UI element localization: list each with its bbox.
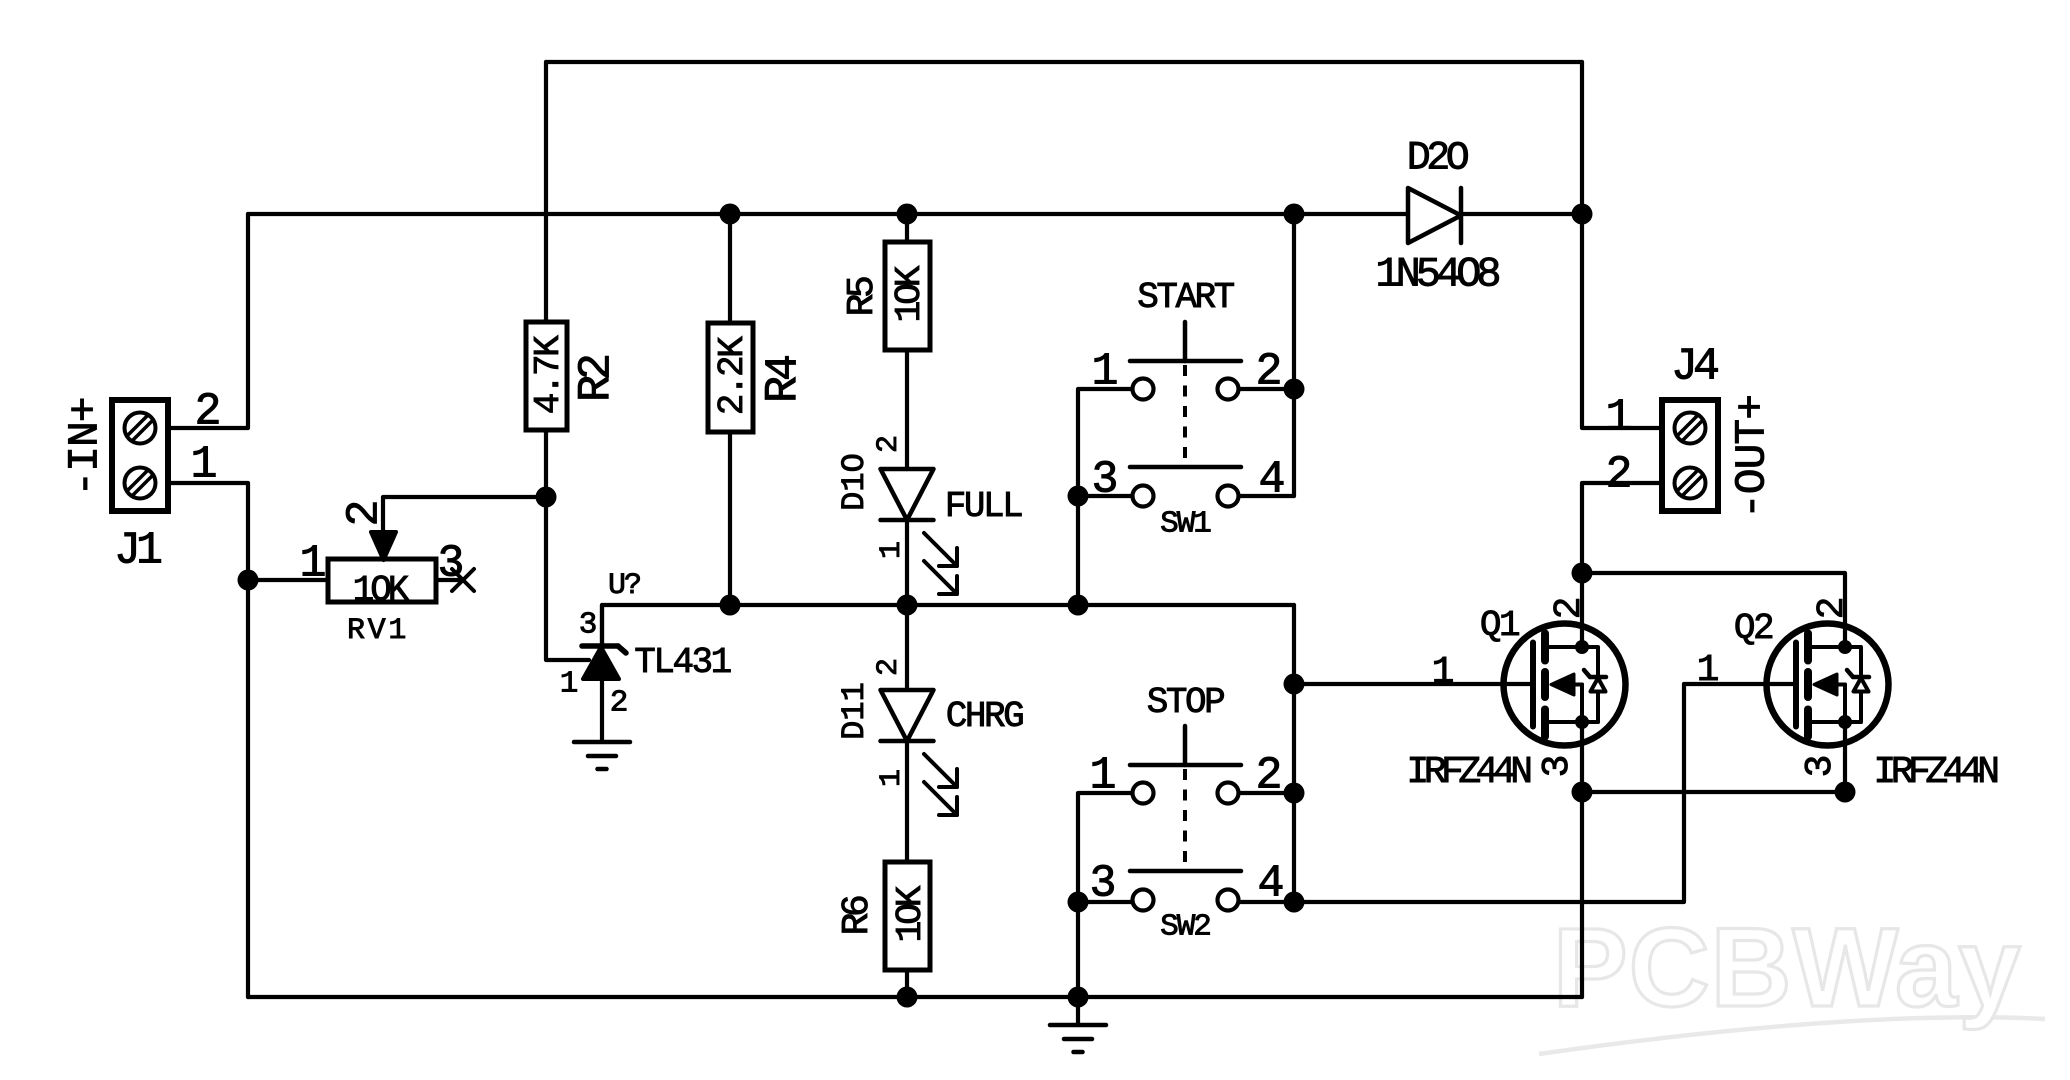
label R4	[758, 356, 809, 403]
label D10	[836, 453, 873, 511]
svg-text:D2O: D2O	[1407, 137, 1468, 182]
svg-text:1: 1	[190, 439, 217, 490]
label Q1	[1480, 605, 1519, 646]
svg-text:CHRG: CHRG	[946, 696, 1023, 737]
wire RV1 pin1	[248, 578, 328, 582]
svg-text:Q1: Q1	[1480, 605, 1519, 646]
label FULL	[945, 486, 1022, 527]
pin 2 label Q1	[1548, 597, 1591, 620]
pin 1 label D11	[875, 769, 909, 787]
pin 3 label SW1	[1091, 454, 1118, 505]
net label -OUT+	[1728, 395, 1777, 519]
svg-text:4.7K: 4.7K	[528, 335, 569, 414]
value 10K R5	[889, 265, 930, 322]
transistor Q1 IRFZ44N	[1504, 624, 1626, 746]
wire D11 cathode to R6	[905, 739, 909, 862]
connector J4 screw pin1	[1675, 413, 1706, 444]
label STOP	[1147, 682, 1224, 723]
svg-text:1: 1	[1091, 346, 1118, 397]
svg-text:R6: R6	[836, 896, 879, 935]
node mid net / Q1 gate branch	[1284, 674, 1305, 695]
node R4 top	[720, 204, 741, 225]
svg-text:RV1: RV1	[347, 614, 409, 648]
node R5 top	[897, 204, 918, 225]
svg-text:3: 3	[579, 608, 598, 643]
svg-text:2.2K: 2.2K	[712, 336, 753, 415]
pin 3 label SW2	[1089, 858, 1116, 909]
wire D10 cathode to mid net	[905, 518, 909, 605]
value 1N5408	[1375, 250, 1499, 298]
svg-text:2: 2	[1811, 597, 1854, 620]
node Q1 source	[1572, 782, 1593, 803]
svg-text:2: 2	[610, 686, 629, 721]
pin 1 label J4	[1605, 392, 1632, 443]
pin 1 label SW1	[1091, 346, 1118, 397]
connector J1 body	[112, 400, 168, 511]
resistor R6 body	[885, 862, 930, 970]
svg-text:PCBWay: PCBWay	[1553, 905, 2022, 1030]
wire Q1 source down	[1580, 722, 1584, 997]
wire SW1 pin2 branch	[1237, 387, 1294, 391]
pin 2 label D10	[872, 435, 906, 453]
svg-text:R2: R2	[571, 356, 622, 402]
pin 2 label RV1	[339, 499, 390, 526]
svg-text:3: 3	[1799, 755, 1842, 778]
svg-text:1: 1	[299, 538, 326, 589]
pin 1 label J1	[190, 439, 217, 490]
svg-text:3: 3	[437, 538, 464, 589]
node J4-pin2/Q drains	[1572, 563, 1593, 584]
node R6 bottom rail	[897, 987, 918, 1008]
svg-text:2: 2	[339, 499, 390, 526]
svg-text:R5: R5	[841, 277, 884, 316]
svg-text:TL431: TL431	[634, 642, 730, 683]
node RV1-pin1/IN- net	[238, 570, 259, 591]
svg-text:2: 2	[1255, 346, 1282, 397]
svg-text:J1: J1	[114, 525, 161, 576]
svg-text:1: 1	[1432, 651, 1455, 694]
node SW2 pin2	[1284, 783, 1305, 804]
wire R2 bottom to TL431 ref	[546, 430, 589, 660]
svg-text:1: 1	[1605, 392, 1632, 443]
svg-text:IRFZ44N: IRFZ44N	[1406, 751, 1530, 794]
resistor R5 body	[885, 242, 930, 350]
svg-text:1OK: 1OK	[890, 885, 931, 942]
pin 2 label D11	[872, 658, 906, 676]
wire Q2 source	[1843, 722, 1847, 792]
svg-text:D11: D11	[836, 682, 873, 740]
no-connect X RV1 pin3	[452, 569, 474, 591]
pin 1 label D10	[875, 541, 909, 559]
label CHRG	[946, 696, 1023, 737]
node SW1 pin3	[1068, 486, 1089, 507]
wire Q1 gate	[1294, 682, 1533, 686]
pin 2 label Q2	[1811, 597, 1854, 620]
svg-text:3: 3	[1089, 858, 1116, 909]
wire RV1 wiper to R2 node	[383, 497, 546, 537]
svg-text:1N54O8: 1N54O8	[1375, 250, 1499, 298]
resistor R2 body	[526, 322, 567, 430]
pin 1 label U?	[560, 667, 579, 702]
switch SW2 (STOP)	[1130, 726, 1241, 911]
pin 2 label SW1	[1255, 346, 1282, 397]
transistor Q2 IRFZ44N	[1767, 624, 1889, 746]
label IRFZ44N (Q1)	[1406, 751, 1530, 794]
svg-text:2: 2	[1255, 750, 1282, 801]
resistor R4 body	[708, 323, 753, 432]
value 10K RV1	[353, 570, 410, 611]
pin 2 label J1	[194, 386, 221, 437]
pin 1 label SW2	[1089, 750, 1116, 801]
PCBWay watermark (decorative)	[1539, 905, 2045, 1054]
label START	[1137, 277, 1234, 318]
svg-text:2: 2	[1605, 449, 1632, 500]
node SW1 riser top	[1284, 204, 1305, 225]
wire R5 top lead	[905, 214, 909, 242]
svg-text:1: 1	[875, 769, 909, 787]
value 2.2K R4	[712, 336, 753, 415]
svg-text:R4: R4	[758, 356, 809, 403]
wire J1 pin1 down left vertical	[167, 483, 248, 997]
wire R2 top lead	[544, 62, 548, 322]
svg-text:Q2: Q2	[1734, 608, 1773, 649]
wire mid net to D11 anode	[905, 605, 909, 690]
value 10K R6	[890, 885, 931, 942]
label J4	[1671, 341, 1718, 392]
wire R5 to D10	[905, 350, 909, 469]
svg-text:1: 1	[1697, 649, 1720, 692]
pin 3 label U?	[579, 608, 598, 643]
svg-text:IRFZ44N: IRFZ44N	[1873, 751, 1997, 794]
wire R6 bottom lead	[905, 970, 909, 997]
node SW2 pin4	[1284, 892, 1305, 913]
svg-text:FULL: FULL	[945, 486, 1022, 527]
node mid net D10/D11	[897, 595, 918, 616]
wire SW1 vertical from rail	[1292, 214, 1296, 496]
wire J4 pin2 down	[1582, 483, 1662, 647]
label IRFZ44N (Q2)	[1873, 751, 1997, 794]
wire Q source bridge	[1582, 790, 1845, 794]
svg-text:SW1: SW1	[1160, 507, 1211, 542]
wire second rail / D20 anode net	[248, 212, 1408, 216]
svg-text:3: 3	[1091, 454, 1118, 505]
svg-text:D1O: D1O	[836, 453, 873, 511]
svg-text:SW2: SW2	[1160, 910, 1210, 945]
label RV1	[347, 614, 409, 648]
wire mid net corner down	[1292, 605, 1296, 901]
svg-text:1OK: 1OK	[353, 570, 410, 611]
potentiometer RV1 body	[328, 559, 436, 602]
wire right vertical to J4 pin1	[1582, 62, 1662, 428]
svg-text:2: 2	[194, 386, 221, 437]
LED D10	[881, 469, 958, 594]
node GND rail	[1068, 987, 1089, 1008]
node SW1-pin1/mid net	[1068, 595, 1089, 616]
pin 3 label Q1	[1536, 755, 1579, 778]
wire SW1 pin1 branch	[1078, 389, 1134, 605]
wire Q drain bridge	[1582, 573, 1845, 647]
connector J4 screw pin2	[1675, 468, 1706, 499]
label SW2	[1160, 910, 1210, 945]
node SW1 pin2	[1284, 379, 1305, 400]
svg-text:3: 3	[1536, 755, 1579, 778]
svg-text:2: 2	[872, 658, 906, 676]
value 4.7K R2	[528, 335, 569, 414]
node R2/RV1 wiper	[536, 487, 557, 508]
svg-text:J4: J4	[1671, 341, 1718, 392]
pin 4 label SW1	[1258, 454, 1285, 505]
connector J4 body	[1662, 400, 1718, 511]
node D20 cathode	[1572, 204, 1593, 225]
wire SW2 pin2 stub	[1238, 791, 1294, 795]
svg-text:STOP: STOP	[1147, 682, 1224, 723]
svg-text:START: START	[1137, 277, 1234, 318]
label D11	[836, 682, 873, 740]
label R6	[836, 896, 879, 935]
wire top rail	[546, 60, 1582, 64]
label D20	[1407, 137, 1468, 182]
pin 2 label SW2	[1255, 750, 1282, 801]
svg-text:1: 1	[875, 541, 909, 559]
connector J1 screw pin2	[125, 413, 156, 444]
wire TL431 cathode to mid net	[602, 605, 1294, 644]
wire SW2 pin1 branch	[1078, 793, 1134, 997]
connector J1 screw pin1	[125, 468, 156, 499]
svg-text:4: 4	[1257, 858, 1284, 909]
wire D20 cathode to right rail	[1461, 212, 1582, 216]
node SW2 pin3	[1068, 892, 1089, 913]
label Q2	[1734, 608, 1773, 649]
svg-text:2: 2	[1548, 597, 1591, 620]
pin 3 label RV1	[437, 538, 464, 589]
label J1	[114, 525, 161, 576]
pin 1 label Q1	[1432, 651, 1455, 694]
wire R4 bottom lead	[728, 432, 732, 605]
svg-text:2: 2	[872, 435, 906, 453]
potentiometer RV1 wiper arrow	[371, 532, 396, 560]
pin 2 label J4	[1605, 449, 1632, 500]
svg-text:-OUT+: -OUT+	[1728, 395, 1777, 519]
label U?	[608, 569, 640, 603]
label SW1	[1160, 507, 1211, 542]
switch SW1 (START)	[1130, 322, 1241, 507]
wire RV1 pin3 stub	[436, 578, 461, 582]
wire SW2 pin3 stub	[1078, 900, 1134, 904]
wire SW2 pin4 to Q2 gate riser	[1238, 684, 1684, 902]
svg-text:-IN+: -IN+	[61, 397, 110, 496]
pin 2 label U?	[610, 686, 629, 721]
node Q2 source	[1835, 782, 1856, 803]
label R2	[571, 356, 622, 402]
wire SW1 pin3 stub	[1078, 494, 1134, 498]
svg-text:1: 1	[1089, 750, 1116, 801]
label TL431	[634, 642, 730, 683]
svg-text:4: 4	[1258, 454, 1285, 505]
node R4 bottom	[720, 595, 741, 616]
svg-text:U?: U?	[608, 569, 640, 603]
wire R4 top lead	[728, 214, 732, 323]
wire SW1 pin4 stub	[1237, 494, 1294, 498]
label R5	[841, 277, 884, 316]
wire bottom rail	[248, 995, 1582, 999]
pin 4 label SW2	[1257, 858, 1284, 909]
pin 1 label RV1	[299, 538, 326, 589]
net label -IN+	[61, 397, 110, 496]
pin 3 label Q2	[1799, 755, 1842, 778]
svg-text:1: 1	[560, 667, 579, 702]
wire J1 pin2 riser	[167, 214, 248, 428]
LED D11	[881, 690, 958, 815]
svg-text:1OK: 1OK	[889, 265, 930, 322]
pin 1 label Q2	[1697, 649, 1720, 692]
ground (TL431 anode)	[574, 742, 630, 769]
wire Q2 gate	[1684, 682, 1796, 686]
ground (bottom rail)	[1050, 997, 1106, 1052]
TL431 U? shunt regulator	[582, 605, 626, 742]
diode D20	[1408, 188, 1461, 243]
